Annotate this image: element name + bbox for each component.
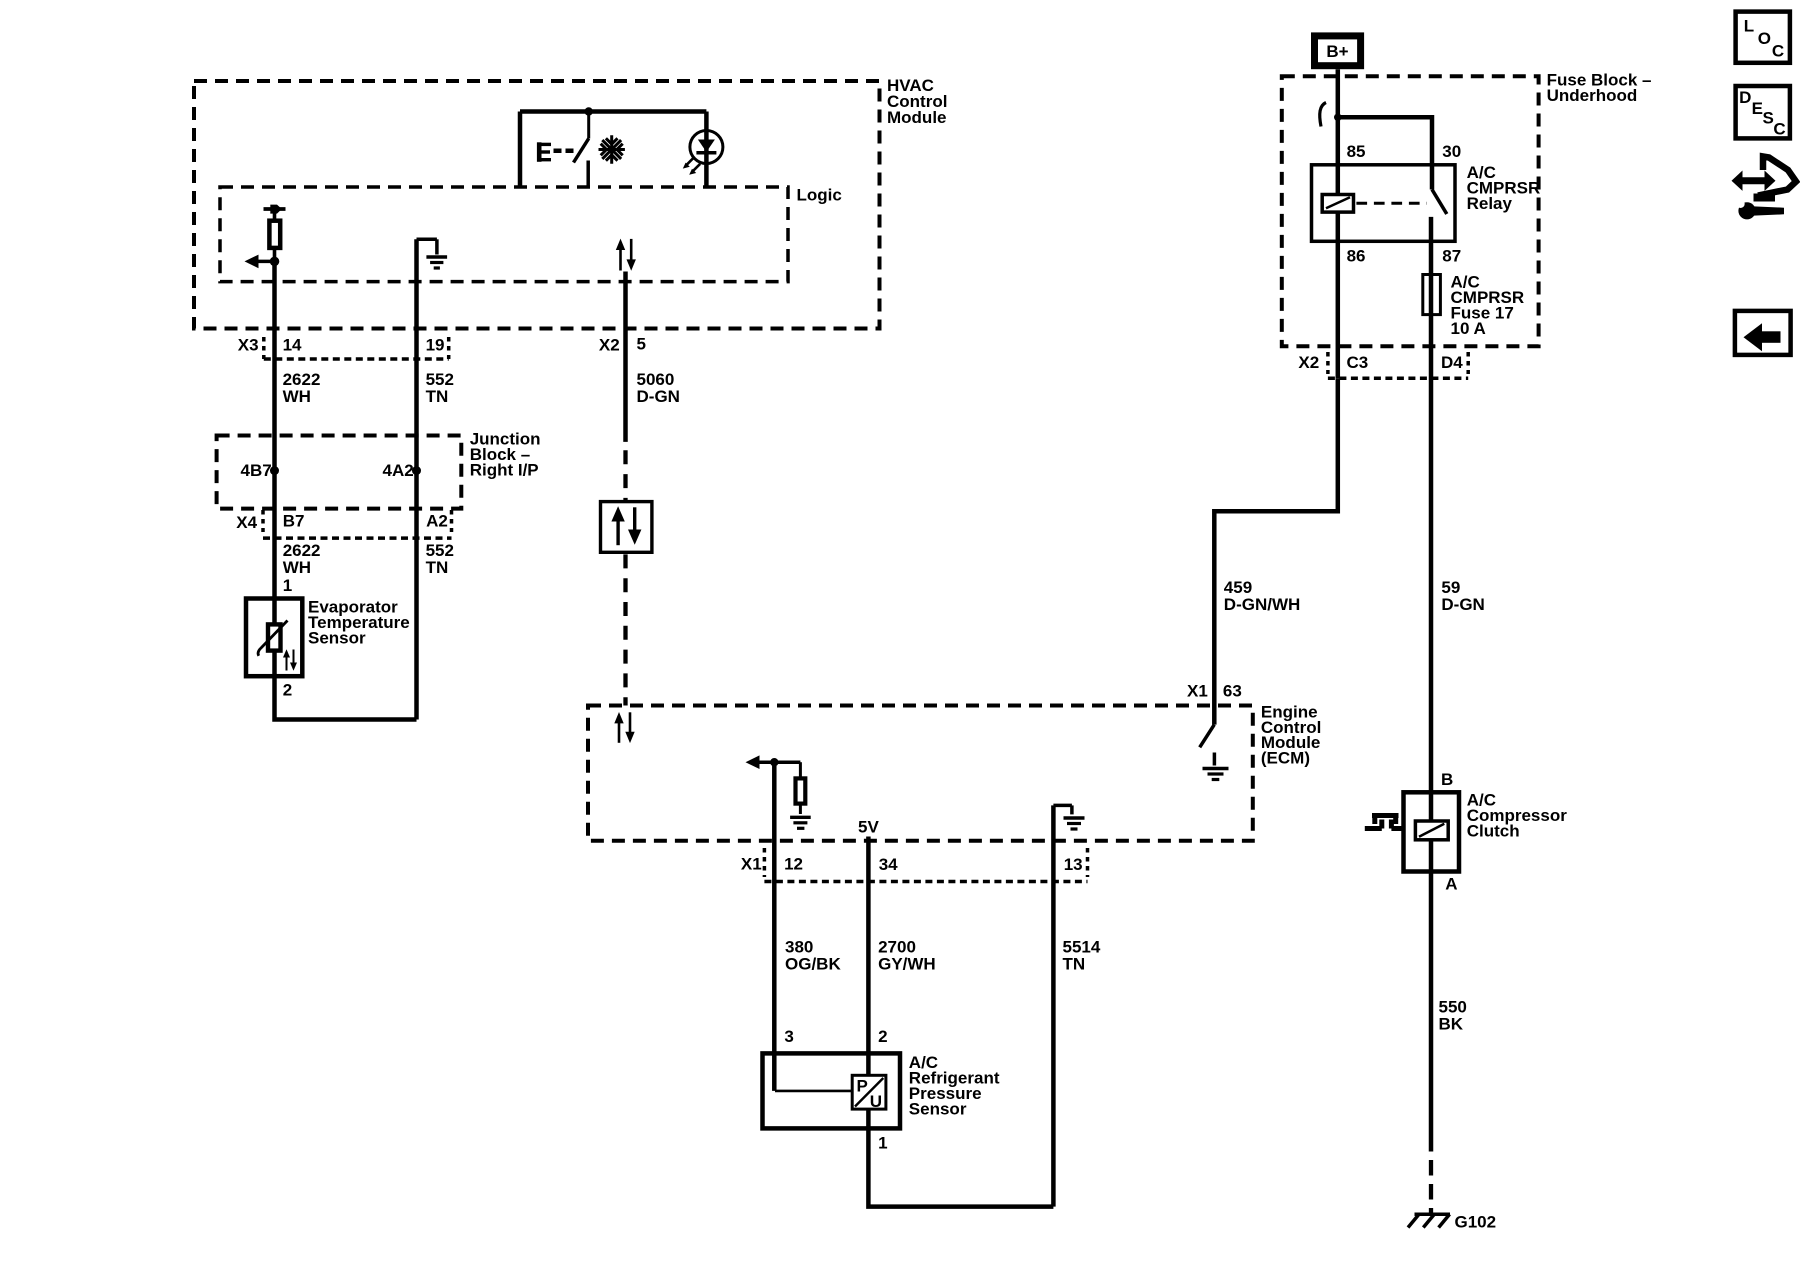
svg-text:1: 1 [878, 1133, 887, 1152]
svg-text:WH: WH [283, 558, 311, 577]
svg-text:19: 19 [426, 336, 445, 355]
power B+ [1315, 36, 1361, 66]
svg-text:C: C [1772, 41, 1784, 60]
label 552 TN (lower) [426, 541, 454, 577]
svg-text:D4: D4 [1441, 353, 1463, 372]
splice hook symbol [1320, 103, 1326, 127]
component box A/C Refrigerant Pressure Sensor [763, 1053, 1000, 1129]
svg-text:X2: X2 [599, 335, 620, 354]
svg-text:GY/WH: GY/WH [878, 955, 936, 974]
wire sensor return bottom (pin1 to 5514) [868, 1109, 1053, 1207]
svg-text:86: 86 [1347, 246, 1366, 265]
wire serial data dashed to ECM [623, 554, 627, 705]
svg-text:P: P [857, 1077, 868, 1096]
fuse F17 A/C CMPRSR Fuse 17 10 A [1423, 273, 1524, 339]
connector X2 row (fuse block) [1298, 352, 1468, 378]
module box Engine Control Module (ECM) [588, 702, 1321, 841]
node 4A2 [383, 461, 422, 480]
connector X4 row [236, 510, 451, 538]
serial data arrows (logic) [616, 239, 636, 271]
node 4B7 [241, 461, 280, 480]
svg-text:X4: X4 [236, 513, 257, 532]
junction block box Junction Block - Right I/P [217, 430, 541, 509]
ground (HVAC logic, pin 19 net) [417, 239, 448, 268]
arrow to other circuit (left, pin 14 net) [245, 255, 275, 269]
transducer P/U symbol [852, 1075, 886, 1111]
logic box Logic [220, 186, 842, 282]
ground (ECM pull resistor) [790, 817, 811, 828]
svg-text:13: 13 [1064, 855, 1083, 874]
label 380 OG/BK [785, 938, 841, 974]
node switch junction dot [585, 107, 593, 115]
wire 380 OG/BK (pin 12 to pressure sensor) [772, 762, 777, 1091]
relay coil [1322, 195, 1353, 213]
svg-text:85: 85 [1347, 142, 1366, 161]
icon snowflake [599, 135, 625, 164]
wire 2700 GY/WH (5V to pressure sensor) [866, 837, 871, 1076]
wire sensor internal (pin 3 to transducer) [775, 1090, 852, 1093]
variable arrows (inside sensor) [283, 649, 297, 670]
wire 87 feed to clutch [1429, 217, 1434, 1152]
svg-text:B+: B+ [1326, 42, 1348, 61]
svg-text:Underhood: Underhood [1547, 86, 1638, 105]
relay actuation dashed link [1356, 202, 1426, 205]
connector X2 pin 5 (HVAC) [599, 335, 646, 355]
svg-text:34: 34 [879, 855, 898, 874]
svg-text:Logic: Logic [797, 186, 842, 205]
svg-text:TN: TN [426, 558, 449, 577]
svg-text:X2: X2 [1298, 353, 1319, 372]
label 550 BK [1439, 997, 1467, 1033]
icon diagnostic (double arrow, outline, wrench) [1732, 157, 1797, 220]
svg-text:C: C [1773, 119, 1785, 138]
svg-text:4B7: 4B7 [241, 461, 272, 480]
svg-text:D-GN/WH: D-GN/WH [1224, 595, 1300, 614]
svg-text:C3: C3 [1347, 353, 1369, 372]
svg-text:1: 1 [283, 576, 292, 595]
label 2622 WH [283, 370, 321, 406]
svg-text:Sensor: Sensor [909, 1099, 967, 1118]
svg-text:14: 14 [283, 336, 302, 355]
component box Evaporator Temperature Sensor [246, 598, 410, 677]
serial data arrows (ECM) [614, 712, 634, 743]
svg-text:X1: X1 [1187, 682, 1208, 701]
resistor R2 (ECM pull) [796, 762, 806, 814]
svg-text:2: 2 [878, 1027, 887, 1046]
node junction dot pin 12 net [770, 758, 778, 766]
wire sensor return bottom [275, 599, 417, 720]
thermistor RT (inside sensor) [258, 621, 287, 656]
svg-text:X3: X3 [238, 336, 259, 355]
serial data box (data link) [601, 502, 652, 553]
ground G102 [1408, 1213, 1496, 1232]
component box A/C Compressor Clutch [1404, 791, 1568, 872]
svg-text:L: L [1744, 16, 1754, 35]
wire 550 BK dashed tail [1429, 1160, 1433, 1213]
svg-text:X1: X1 [741, 854, 762, 873]
svg-text:3: 3 [784, 1027, 793, 1046]
svg-text:4A2: 4A2 [383, 461, 414, 480]
svg-text:10 A: 10 A [1451, 319, 1486, 338]
wire 2622 WH (pin 14 to evaporator sensor) [272, 261, 277, 598]
mechanical linkage symbol [1365, 816, 1404, 829]
svg-text:WH: WH [283, 387, 311, 406]
connector X3 row [238, 336, 449, 359]
svg-text:5V: 5V [858, 818, 879, 837]
svg-text:TN: TN [426, 387, 449, 406]
resistor R1 (logic pull, pin 14 net) [264, 205, 286, 262]
label 459 D-GN/WH [1224, 578, 1300, 614]
svg-text:OG/BK: OG/BK [785, 955, 841, 974]
node junction dot pin14 net [270, 257, 280, 267]
wire branch to relay pin 30 [1338, 117, 1432, 189]
clutch coil [1415, 821, 1448, 840]
wire 459 D-GN/WH (C3 to ECM X1-63) [1214, 378, 1338, 724]
icon LOC box [1736, 12, 1790, 63]
svg-text:BK: BK [1439, 1014, 1464, 1033]
svg-text:D: D [1739, 88, 1751, 107]
svg-text:Right I/P: Right I/P [470, 461, 539, 480]
svg-text:Sensor: Sensor [308, 629, 366, 648]
svg-text:2: 2 [283, 680, 292, 699]
switch to ground (ECM driver) [1200, 725, 1215, 748]
svg-text:A2: A2 [426, 512, 448, 531]
label 2700 GY/WH [878, 938, 936, 974]
label 2622 WH (lower) [283, 541, 321, 577]
svg-text:G102: G102 [1455, 1213, 1497, 1232]
svg-text:O: O [1758, 29, 1771, 48]
svg-text:Module: Module [887, 108, 947, 127]
module box Fuse Block - Underhood [1282, 71, 1652, 347]
svg-text:TN: TN [1063, 955, 1086, 974]
svg-text:30: 30 [1442, 142, 1461, 161]
svg-text:12: 12 [784, 854, 803, 873]
svg-text:B7: B7 [283, 512, 305, 531]
node junction dot B+ branch [1334, 114, 1342, 122]
wire 5060 D-GN dashed segment (serial data) [623, 450, 627, 501]
label 552 TN [426, 370, 454, 406]
label 5060 D-GN [637, 370, 680, 406]
svg-text:(ECM): (ECM) [1261, 749, 1310, 768]
module box HVAC Control Module [194, 76, 947, 329]
wire 5514 TN (pin 13 to sensor return) [1051, 805, 1056, 1206]
wire 552 TN (pin 19 to sensor return) [414, 239, 419, 719]
svg-text:S: S [1763, 108, 1774, 127]
relay K1 A/C CMPRSR Relay [1312, 163, 1541, 241]
switch S1 A/C request (E-- blade) [539, 112, 589, 188]
svg-text:B: B [1441, 770, 1453, 789]
svg-text:U: U [870, 1092, 882, 1111]
svg-text:63: 63 [1223, 682, 1242, 701]
svg-text:87: 87 [1442, 246, 1461, 265]
label 5514 TN [1063, 938, 1101, 974]
ground (ECM driver) [1203, 753, 1229, 780]
svg-text:Relay: Relay [1467, 194, 1513, 213]
icon back arrow box [1735, 311, 1791, 355]
svg-text:Clutch: Clutch [1467, 822, 1520, 841]
svg-text:D-GN: D-GN [1441, 595, 1484, 614]
connector X1 row (ECM bottom) [741, 848, 1088, 882]
LED D1 A/C indicator [683, 112, 723, 188]
wire coil return (86 to C3) [1336, 212, 1341, 378]
svg-text:5: 5 [637, 335, 646, 354]
ground (ECM pin 13 net) [1053, 805, 1084, 829]
label 59 D-GN [1441, 578, 1484, 614]
wire 5060 D-GN solid segment [623, 272, 628, 442]
arrow to other circuit (ECM pin 12 net) [746, 755, 801, 769]
relay contact blade [1432, 190, 1447, 215]
wire B+ feed [1336, 69, 1341, 194]
svg-text:E: E [1752, 99, 1763, 118]
svg-text:A: A [1445, 874, 1457, 893]
svg-text:D-GN: D-GN [637, 387, 680, 406]
connector X1 pin 63 (ECM) [1187, 682, 1242, 701]
wire switch top bus [520, 109, 706, 114]
wire switch left edge [518, 112, 523, 188]
icon DESC box [1736, 86, 1790, 138]
